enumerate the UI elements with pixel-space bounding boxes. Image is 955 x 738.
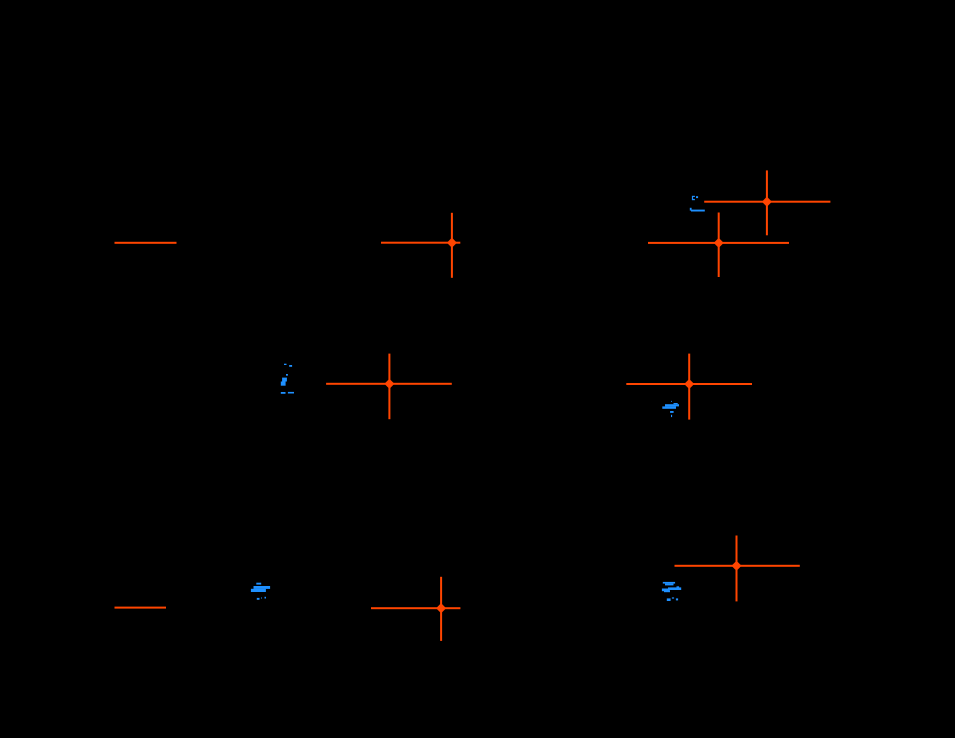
blue annotation row1 [690,196,705,212]
blue annotation row2 right [662,401,679,417]
blue annotation row3 left [251,583,270,600]
blue annotation row2 left [281,364,294,394]
data point P1 clipped x-error bar (row1 left panel) [115,242,177,244]
data point P9 error-bar cross (row3 right) [675,536,800,602]
data point P5 error-bar cross (row2 left) [326,354,452,420]
data point P2 error-bar cross (row1 middle) [381,213,460,278]
data point P3 error-bar cross (row1 right upper) [704,170,830,235]
data point P7 clipped x-error bar (row3 left panel) [115,607,167,609]
blue annotation row3 right [662,582,681,601]
data point P6 error-bar cross (row2 right) [626,354,752,420]
data point P8 error-bar cross (row3 middle) [371,577,460,641]
data point P4 error-bar cross (row1 right lower) [648,213,789,278]
